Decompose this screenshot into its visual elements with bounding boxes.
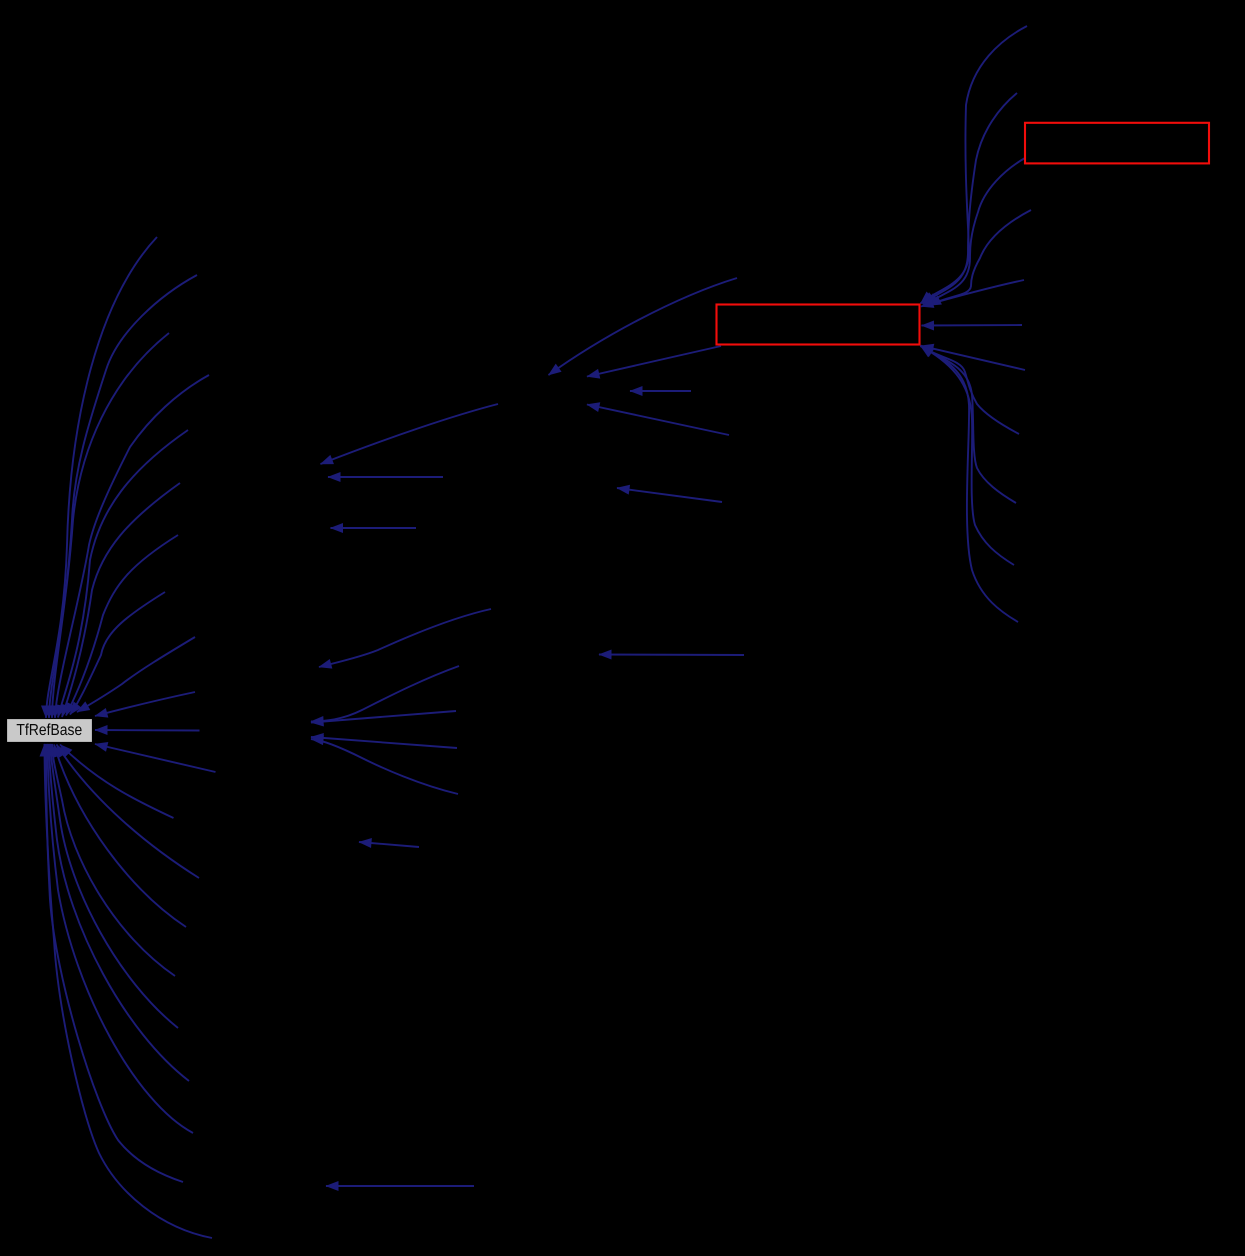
edge R1: [95, 692, 195, 716]
edge Q9: [921, 346, 1016, 503]
edge Q5: [921, 280, 1024, 307]
edge C1: [331, 527, 417, 529]
edge M9: [45, 744, 213, 1238]
edge L4: [55, 375, 209, 718]
edge E1a: [311, 666, 459, 722]
truncated node box (red) top right: [1025, 123, 1209, 164]
edge Q4: [929, 210, 1032, 306]
edge M1: [60, 745, 174, 819]
edge Q11: [921, 346, 1019, 622]
edge M4: [52, 744, 175, 976]
edge L7: [66, 535, 178, 716]
edge M6: [49, 744, 189, 1081]
edge Q7: [921, 346, 1025, 370]
edge M2: [57, 745, 200, 879]
edge A1: [549, 278, 738, 375]
edge A2: [587, 346, 721, 377]
edge M8: [46, 744, 183, 1182]
edge A5: [617, 488, 722, 502]
edge Q6: [922, 324, 1023, 327]
edge L2: [49, 275, 197, 718]
edge A3: [630, 390, 691, 392]
edge L9: [77, 637, 195, 712]
edge R3: [95, 744, 216, 772]
edge L3: [52, 333, 169, 718]
edge A4: [587, 405, 729, 436]
edge B2: [328, 476, 443, 478]
edge Q8: [921, 346, 1020, 434]
edge E2a: [311, 737, 457, 748]
edge E1b: [311, 711, 456, 723]
truncated node box (red) middle: [717, 305, 920, 345]
edge M7: [48, 744, 194, 1133]
edge A6: [599, 654, 744, 657]
node TfRefBase: [7, 719, 93, 743]
edge D1: [319, 609, 491, 667]
edge M3: [54, 745, 186, 928]
edge G1: [326, 1185, 474, 1187]
edge L8: [70, 592, 165, 715]
edge Q2: [923, 93, 1018, 304]
edge R2: [95, 729, 200, 732]
edge E2b: [311, 739, 458, 794]
edge L5: [58, 430, 188, 718]
edge Q1: [921, 26, 1028, 304]
edge Q3: [926, 158, 1026, 305]
edge M5: [51, 744, 179, 1028]
edge F1: [359, 842, 419, 847]
edge L6: [62, 483, 180, 717]
edge L1: [46, 237, 157, 718]
edge B1: [321, 404, 499, 464]
edge Q10: [921, 346, 1015, 566]
